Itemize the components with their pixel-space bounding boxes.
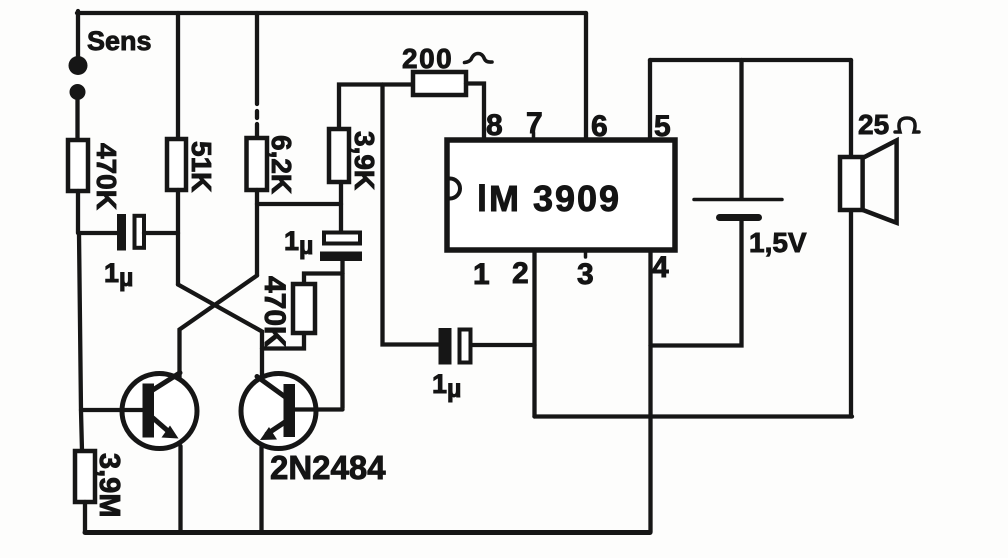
battery B1 long plate [694,198,782,202]
wire Q2 base to C3 node [294,407,343,411]
battery B1 bottom wire [651,221,742,346]
wire Q1 base from left rail [81,408,143,412]
battery B1 short plate [720,214,759,221]
svg-text:51K: 51K [186,141,217,192]
wire battery top rail [650,58,851,62]
svg-text:470K: 470K [258,276,291,348]
svg-text:4: 4 [652,251,669,284]
node Sens contact upper dot [69,56,88,75]
svg-text:2: 2 [512,257,529,290]
transistor Q2 collector stroke [257,377,286,398]
capacitor C3 top plate [324,233,360,244]
svg-text:3,9K: 3,9K [349,131,380,190]
svg-text:200: 200 [402,43,453,74]
capacitor C4 wire right [471,343,535,347]
transistor Q2 base bar [284,384,296,437]
transistor Q1 collector stroke [152,373,180,391]
resistor R3 6,2K body [247,138,268,190]
svg-text:8: 8 [486,109,503,142]
pin 3 tick [584,250,588,257]
wire speaker vertical [849,60,853,417]
wire Q2 emitter down [259,446,263,532]
wire R6 bottom to ground rail [83,502,87,531]
wire pin 5 drop [648,60,652,140]
resistor R6 3,9M body [75,451,95,502]
pin 7 tick [532,133,536,140]
wire junction 6,2K to 3,9K [257,202,341,206]
svg-text:1,5V: 1,5V [749,227,807,258]
transistor Q1 emitter arrow [162,426,179,439]
transistor Q1 emitter stroke [153,418,172,435]
capacitor C3 bottom plate [320,252,362,262]
svg-text:7: 7 [526,107,543,140]
wire pin 4 down to bottom rail [648,250,652,532]
wire pin 2 down [532,250,536,417]
IC U1 notch [450,179,460,199]
svg-text:6,2K: 6,2K [266,135,297,194]
node Sens contact lower dot [70,84,86,100]
wire bottom rail [85,530,650,535]
svg-text:3: 3 [577,258,594,291]
svg-text:Sens: Sens [87,26,152,56]
wire 200 ohm right to pin 8 [466,84,484,141]
capacitor C1 left plate [117,214,126,251]
resistor R2 51K body [167,139,186,190]
wire sensor to R1 [75,100,79,140]
wire 6,2K bottom down to X [255,190,259,276]
svg-text:5: 5 [654,110,671,143]
wire 51K drop from top rail [176,13,180,139]
wire left rail down [79,233,82,451]
svg-text:470K: 470K [91,143,122,210]
resistor R4 3,9K body [329,129,349,182]
capacitor C4 left plate [439,328,452,365]
resistor R5 200 ohm body [413,72,466,95]
wire pin 6 drop from top rail [584,13,588,140]
svg-text:6: 6 [591,110,608,143]
transistor Q1 circle [122,374,197,449]
label 25 ohm glyph [895,118,919,132]
capacitor C1 right plate [135,216,145,248]
svg-text:1: 1 [473,258,490,291]
svg-text:1µ: 1µ [432,369,461,403]
transistor Q2 emitter arrow [260,427,277,440]
speaker LS1 driver [840,157,863,210]
wire X diagonal A [178,285,262,378]
wire R1 bottom to C1 node [76,191,80,233]
wire 470K mid bottom elbow [262,333,304,349]
battery B1 top wire [739,60,743,198]
wire elbow to 470K mid top [304,274,343,285]
svg-text:25: 25 [858,109,889,140]
capacitor C1 wire left [80,231,117,235]
wire 3,9K bottom to C3 [339,182,343,233]
wire mid horizontal pin2 to speaker [535,414,853,418]
transistor Q2 circle [241,374,316,449]
speaker LS1 cone [863,140,897,222]
wire left vertical to sensor [76,11,80,57]
label R5 ohm glyph [465,54,493,63]
svg-text:3,9M: 3,9M [93,453,125,517]
IC U1 LM3909 box [447,140,675,250]
wire C3 bottom down to Q2 base [340,261,344,408]
capacitor C4 right plate [460,330,471,363]
transistor Q2 emitter stroke [267,422,285,434]
wire Q1 emitter down [178,446,182,532]
resistor R1 470K body [68,140,88,191]
svg-text:2N2484: 2N2484 [270,449,386,486]
svg-text:1µ: 1µ [284,226,313,260]
wire drop to C4 from 200 ohm node [383,85,439,345]
capacitor C1 wire right [144,231,178,235]
resistor R7 470K body [293,284,315,333]
wire 3,9K top elbow to 200 ohm [339,85,413,130]
wire 51K bottom down to X [176,190,180,285]
svg-text:1µ: 1µ [104,258,133,292]
transistor Q1 base bar [143,384,155,438]
wire 6,2K drop from top rail (broken scan) [255,13,259,104]
wire top rail [77,11,586,15]
svg-text:lM 3909: lM 3909 [477,178,621,219]
wire X diagonal B [180,276,258,379]
